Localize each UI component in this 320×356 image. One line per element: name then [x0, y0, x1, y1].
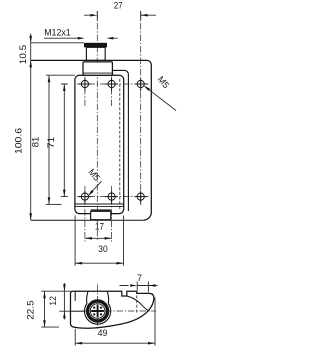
22.5 arrows (inside)	[43, 291, 46, 298]
text bottom view	[25, 273, 142, 338]
connector dark ring	[88, 301, 108, 321]
71 ticks	[61, 84, 68, 197]
10.5 top arrow (down)	[29, 36, 32, 43]
centerline screw row2 y=196.6	[77, 196, 149, 198]
tab inner vertical	[74, 291, 76, 301]
100.6 bottom arrow (down)	[29, 213, 32, 220]
svg-text:27: 27	[114, 1, 123, 11]
screw body top-left	[79, 78, 91, 91]
centerline horizontal bottom view	[82, 310, 156, 312]
svg-text:30: 30	[98, 244, 107, 254]
hidden line head	[136, 295, 138, 312]
dim 30 ext lines	[75, 216, 123, 266]
body split double line	[75, 204, 124, 206]
centerline bracket screw column x=140.7	[140, 12, 142, 206]
27 arrows	[90, 14, 97, 17]
centerline vertical bottom view	[97, 285, 99, 330]
30 arrows	[75, 262, 82, 265]
arrowheads main view	[29, 14, 147, 265]
dim 49 line	[75, 342, 155, 344]
dim 22.5 line	[44, 291, 46, 327]
dim 12/22.5 top extension	[41, 290, 70, 292]
connector base block	[83, 62, 112, 75]
svg-text:49: 49	[98, 328, 108, 338]
dim 22.5 bottom extension	[41, 326, 59, 328]
centerline screw row1 y=84	[77, 83, 149, 85]
svg-text:81: 81	[31, 137, 41, 148]
svg-text:22.5: 22.5	[25, 300, 35, 320]
connector base inner line	[83, 72, 112, 74]
actuator slot thick bar	[91, 209, 111, 211]
screw bracket top M5	[135, 78, 147, 91]
dimensions bottom view	[41, 282, 157, 346]
dim 81 line	[48, 75, 50, 204]
screw body bottom-right	[105, 191, 117, 204]
svg-text:71: 71	[46, 137, 56, 149]
svg-text:M12x1: M12x1	[44, 27, 70, 37]
screw bracket bottom	[135, 191, 147, 204]
dim 7	[120, 285, 158, 287]
body outline	[75, 75, 124, 213]
81 arrows	[48, 75, 51, 82]
connector outer collar	[85, 292, 111, 325]
bracket bend line	[112, 70, 128, 211]
7 arrows	[130, 284, 137, 287]
centerline screw column left x=84.9	[84, 77, 86, 242]
71 arrows	[63, 84, 66, 91]
connector cross plus	[91, 305, 104, 318]
svg-text:17: 17	[95, 221, 104, 231]
body hidden edge dashed	[119, 79, 121, 209]
svg-text:12: 12	[48, 296, 58, 306]
10.5 top extension line	[31, 42, 84, 44]
body top edge extension (81 dim)	[46, 74, 75, 76]
M12 thread band	[84, 43, 107, 48]
M5 leader upper right	[143, 85, 176, 110]
head outline	[71, 291, 154, 328]
17 arrows (inside, pointing out)	[85, 237, 92, 240]
screw body bottom-left M5	[79, 191, 91, 204]
tab seam horizontal	[71, 310, 85, 312]
81 bottom extension	[46, 203, 62, 205]
dim 30 line	[75, 262, 123, 264]
connector inner circle	[90, 304, 105, 319]
M12x1 arrows	[78, 37, 85, 40]
10.5 bottom / 100.6 top arrow (up)	[29, 60, 32, 67]
dim 12 line	[63, 283, 65, 320]
M12 cylinder	[86, 47, 105, 60]
bracket top edge + extension to 10.5 dim	[31, 60, 152, 220]
centerline main vertical	[96, 12, 98, 242]
dim 71 line	[63, 84, 65, 197]
head internal seam curve	[127, 296, 150, 311]
dim 27	[84, 14, 156, 16]
dim 10.5/100.6 vertical line	[30, 34, 32, 221]
svg-text:7: 7	[137, 273, 142, 283]
svg-text:100.6: 100.6	[14, 128, 24, 154]
bracket bottom edge + extension to 100.6 dim	[31, 219, 144, 221]
dim 49 ext lines	[75, 298, 155, 346]
svg-text:10.5: 10.5	[18, 45, 28, 65]
M5 leader lower left	[88, 181, 102, 196]
12 arrows (outside)	[63, 284, 66, 291]
screw body top-right	[105, 78, 117, 91]
centerline screw column right x=111.6	[111, 77, 113, 242]
screws: circle-cross symbols	[79, 78, 147, 203]
dim M12x1 leader line	[44, 37, 118, 39]
dim 17 line	[85, 237, 112, 239]
49 arrows	[75, 342, 82, 345]
actuator block below body	[91, 211, 111, 219]
dim 12 bottom extension	[59, 310, 70, 312]
